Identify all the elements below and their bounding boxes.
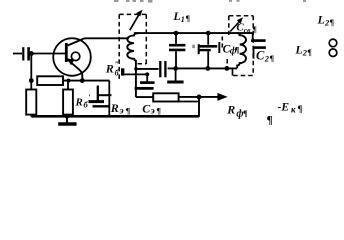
- node top rail Cf: [206, 31, 211, 36]
- tiny cropped text at top edge: [114, 0, 306, 3]
- wire rail B left: [136, 68, 159, 70]
- shield box 2 dashed: [227, 16, 253, 76]
- resistor divider lower left: [26, 90, 36, 115]
- capacitor C coupling plates: [22, 47, 24, 60]
- svg-text:¶: ¶: [253, 25, 257, 34]
- resistor R middle horizontal: [153, 93, 178, 101]
- inductor L1 coil: [127, 33, 138, 61]
- transistor VT1 body circle: [53, 38, 91, 76]
- wire emitter down: [108, 81, 110, 117]
- node emitter junction: [80, 78, 85, 83]
- wire emitter rail: [63, 80, 110, 82]
- svg-text:R: R: [110, 101, 119, 115]
- capacitor Ce plates: [146, 74, 148, 82]
- svg-text:-E: -E: [278, 102, 290, 114]
- svg-text:R: R: [75, 97, 83, 109]
- svg-text:R: R: [105, 62, 114, 76]
- inductor L2 coil: [237, 33, 246, 68]
- svg-text:¶: ¶: [330, 17, 335, 27]
- capacitor Csv variable arrow: [230, 21, 240, 31]
- capacitor C2: [252, 33, 254, 39]
- wire Rb' top stub: [67, 81, 69, 90]
- wire to cap Ce top: [124, 73, 147, 75]
- svg-text:св: св: [244, 26, 251, 35]
- transistor VT1 inner dot circle: [71, 52, 79, 60]
- wire Rb' bottom stub: [67, 115, 69, 117]
- terminal lower: [329, 49, 337, 57]
- capacitor Ce' bottom bar: [89, 100, 105, 103]
- svg-text:¶: ¶: [126, 106, 131, 116]
- resistor Rb' vertical: [63, 90, 73, 115]
- transistor VT1 base bar: [65, 43, 68, 62]
- node top rail C1: [174, 31, 179, 36]
- node rail B c1: [173, 66, 178, 71]
- wire Ce' bottom link: [93, 105, 110, 107]
- svg-text:э: э: [150, 107, 155, 117]
- wire base: [30, 53, 65, 55]
- resistor Rb'' horizontal: [37, 76, 63, 85]
- svg-text:к: к: [291, 105, 296, 115]
- svg-text:¶: ¶: [235, 45, 240, 55]
- svg-text:¶: ¶: [243, 108, 248, 118]
- wire to resistor R middle: [136, 96, 153, 98]
- terminal upper: [329, 39, 337, 47]
- transistor VT1 emitter lead with arrow: [67, 59, 83, 81]
- svg-text:″: ″: [115, 60, 119, 69]
- resistor R middle leads: [179, 96, 199, 98]
- ground node: [65, 114, 70, 119]
- node rail B left: [134, 67, 138, 71]
- capacitor C1: [175, 33, 177, 44]
- capacitor Cf: [207, 33, 209, 45]
- capacitor Ce' plate vertical: [97, 86, 99, 102]
- capacitor series plates: [159, 61, 161, 77]
- svg-text:L: L: [172, 9, 180, 23]
- arrow output Rf: [199, 96, 219, 98]
- svg-text:¶: ¶: [267, 115, 273, 127]
- transistor VT1 collector lead: [68, 38, 85, 45]
- wire collector to L1 tap: [85, 37, 129, 39]
- svg-text:C: C: [256, 49, 265, 63]
- svg-text:¶: ¶: [156, 106, 161, 116]
- wire down right: [198, 97, 200, 117]
- svg-text:R: R: [226, 103, 235, 117]
- wire rail B right: [168, 67, 237, 69]
- svg-text:¶: ¶: [307, 47, 312, 57]
- wire bottom rail: [31, 115, 199, 118]
- label Cf: [218, 42, 220, 53]
- node Rb' top: [66, 79, 70, 83]
- wire box corner elbow: [232, 68, 234, 75]
- node rail B c2: [205, 66, 210, 71]
- stray dash segment left of box 2: [221, 37, 223, 51]
- capacitor Ce' lead: [99, 94, 112, 96]
- node divider junction: [29, 78, 34, 83]
- svg-text:L: L: [294, 43, 302, 57]
- svg-text:¶: ¶: [270, 53, 275, 63]
- wire stub: [30, 115, 32, 117]
- wire base divider vertical: [30, 54, 32, 90]
- inductor L1 variable arrow: [130, 13, 140, 30]
- chassis stub under C1: [175, 68, 177, 80]
- svg-text:1: 1: [181, 15, 185, 24]
- svg-text:э: э: [119, 107, 124, 117]
- wire top rail A: [134, 32, 253, 34]
- capacitor C coupling input lead: [13, 53, 22, 55]
- node cap Ce: [145, 72, 149, 76]
- node output: [197, 95, 202, 100]
- shield box 1 dashed: [119, 14, 146, 79]
- wire L1 bottom down: [135, 60, 137, 97]
- svg-text:L: L: [317, 13, 325, 27]
- ground symbol: [66, 116, 68, 122]
- node base junction: [29, 51, 34, 56]
- svg-text:¶: ¶: [298, 104, 303, 114]
- svg-text:¶: ¶: [186, 13, 191, 23]
- node rail B right: [225, 66, 230, 71]
